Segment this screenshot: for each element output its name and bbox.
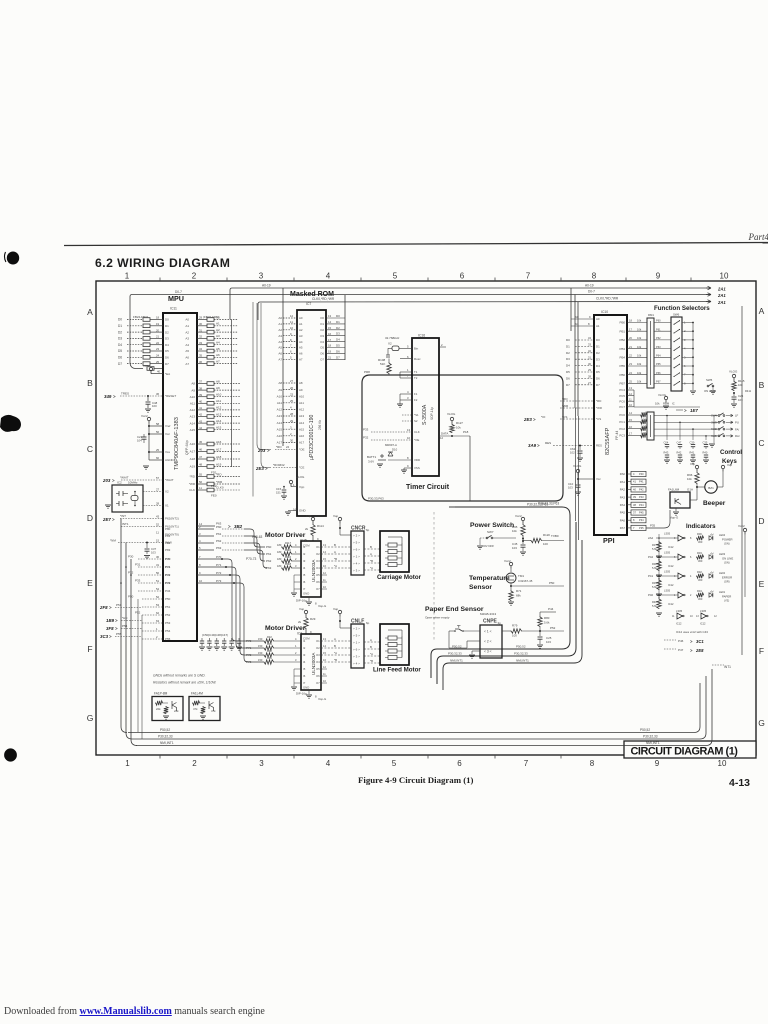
svg-text:25: 25 (156, 448, 160, 452)
svg-text:SW7: SW7 (487, 530, 494, 534)
svg-text:R41: R41 (690, 451, 695, 455)
svg-text:203: 203 (102, 478, 111, 483)
svg-text:51: 51 (156, 579, 160, 583)
svg-text:FE0: FE0 (211, 494, 217, 498)
svg-text:10: 10 (718, 759, 727, 768)
svg-text:P32: P32 (363, 436, 369, 440)
svg-text:P42: P42 (648, 555, 654, 559)
svg-text:100: 100 (152, 404, 157, 408)
svg-text:12: 12 (440, 436, 444, 440)
svg-text:2A2: 2A2 (648, 536, 654, 540)
svg-text:SW5: SW5 (706, 378, 713, 382)
svg-text:*ROM32: *ROM32 (273, 463, 285, 467)
resistor network RM2 box (647, 412, 654, 440)
svg-text:C: C (758, 438, 764, 448)
svg-text:P63: P63 (656, 345, 661, 349)
svg-text:D7: D7 (566, 383, 570, 387)
svg-text:Figure 4-9 Circuit Diagram (1): Figure 4-9 Circuit Diagram (1) (358, 775, 474, 785)
svg-text:D3: D3 (118, 337, 122, 341)
svg-text:Vref: Vref (165, 424, 171, 428)
svg-text:P30,32,33: P30,32,33 (448, 652, 462, 656)
svg-text:PB2: PB2 (620, 338, 626, 342)
svg-text:BZ1: BZ1 (708, 486, 714, 490)
svg-text:43: 43 (156, 515, 160, 519)
svg-text:Resistors without remark are ±: Resistors without remark are ±5%, 1/10W. (153, 681, 216, 685)
svg-text:15: 15 (328, 326, 332, 330)
svg-text:A13: A13 (216, 412, 222, 416)
svg-text:PC0: PC0 (619, 413, 625, 417)
svg-text:3A9: 3A9 (528, 443, 537, 448)
svg-text:17: 17 (328, 338, 332, 342)
svg-text:LS05: LS05 (664, 551, 671, 555)
control keys switches SW1-SW4 (718, 415, 720, 417)
svg-text:A11: A11 (216, 399, 221, 403)
svg-text:C04: C04 (664, 441, 669, 445)
svg-text:54: 54 (156, 587, 160, 591)
svg-text:P35: P35 (639, 526, 644, 530)
svg-text:A6: A6 (216, 353, 220, 357)
svg-text:47: 47 (199, 455, 203, 459)
grid ticks bottom (159, 755, 161, 759)
svg-text:29: 29 (199, 316, 203, 320)
svg-text:10k: 10k (637, 362, 642, 366)
svg-text:< 2 <: < 2 < (484, 639, 492, 643)
svg-text:>: > (109, 605, 112, 610)
svg-text:D5: D5 (118, 349, 122, 353)
svg-text:D0: D0 (118, 318, 122, 322)
svg-text:A15: A15 (299, 427, 305, 431)
MPU IC11 chip body TMP90C840AF-1383 (163, 313, 197, 641)
scan blob artifact top-left (7, 252, 19, 265)
svg-text:23: 23 (156, 347, 160, 351)
svg-text:43: 43 (199, 419, 203, 423)
svg-text:NMI,INT1: NMI,INT1 (160, 741, 174, 745)
svg-text:D4: D4 (336, 338, 340, 342)
svg-text:Paper End Sensor: Paper End Sensor (425, 606, 484, 613)
svg-text:256 Kb: 256 Kb (318, 420, 322, 430)
svg-text:Vop-G: Vop-G (318, 697, 327, 701)
svg-text:5.6k: 5.6k (544, 621, 550, 625)
beeper driver ground (675, 508, 677, 511)
svg-text:R02: R02 (697, 570, 702, 574)
svg-text:2A1: 2A1 (717, 293, 726, 298)
svg-text:CIRCUIT DIAGRAM (1): CIRCUIT DIAGRAM (1) (630, 746, 738, 758)
svg-text:P62(INT2): P62(INT2) (165, 517, 179, 521)
svg-text:10k: 10k (637, 380, 642, 384)
address bus A0-19 wire (230, 288, 711, 320)
Masked ROM IC7 chip body uPD23C2001C-190 (297, 310, 326, 516)
svg-text:A4: A4 (278, 340, 282, 344)
svg-text:39: 39 (199, 393, 203, 397)
svg-text:O1: O1 (316, 639, 320, 643)
driver unused inputs grounded line feed (294, 668, 301, 670)
svg-text:PA1: PA1 (620, 480, 626, 484)
svg-text:VLOG: VLOG (296, 475, 305, 479)
svg-text:*CS: *CS (562, 415, 567, 419)
svg-text:Vop-G: Vop-G (670, 516, 679, 520)
driver supply Vop with resistor R29 2k (304, 610, 307, 613)
svg-text:A3: A3 (299, 334, 303, 338)
svg-text:A2: A2 (299, 328, 303, 332)
svg-text:9: 9 (655, 759, 660, 768)
svg-text:Function Selectors: Function Selectors (654, 305, 710, 312)
svg-text:9: 9 (656, 272, 661, 281)
svg-text:16: 16 (293, 508, 297, 512)
wire bundle loop around timer circuit (362, 375, 563, 501)
svg-text:3: 3 (259, 759, 264, 768)
wires PC4-PC7 loop to SW5 (633, 390, 635, 407)
svg-text:A5: A5 (278, 346, 282, 350)
svg-text:103: 103 (512, 546, 517, 550)
svg-text:D10: D10 (392, 448, 398, 452)
svg-text:IC12: IC12 (668, 583, 674, 587)
svg-text:VLOG: VLOG (729, 370, 738, 374)
svg-text:*A: *A (334, 564, 337, 568)
svg-text:*HC: *HC (122, 616, 128, 620)
svg-text:12: 12 (290, 314, 294, 318)
svg-text:10MHz: 10MHz (128, 481, 138, 485)
svg-text:LE03: LE03 (719, 552, 726, 556)
svg-text:P30,32,33,P63: P30,32,33,P63 (538, 502, 559, 506)
svg-text:P55: P55 (165, 637, 171, 641)
svg-text:Vpp: Vpp (299, 485, 305, 489)
svg-text:D: D (87, 513, 93, 523)
svg-text:52: 52 (156, 523, 160, 527)
svg-text:*NM: *NM (110, 539, 116, 543)
svg-text:36: 36 (156, 392, 160, 396)
svg-text:P53: P53 (165, 621, 171, 625)
line feed motor driver IC2 ULN2003A chip body (301, 634, 321, 690)
svg-text:> 1 >: > 1 > (353, 640, 360, 644)
svg-text:10k: 10k (637, 371, 642, 375)
svg-text:19: 19 (328, 350, 332, 354)
svg-text:*A: *A (370, 566, 373, 570)
svg-text:D1: D1 (596, 345, 600, 349)
svg-text:A13: A13 (277, 414, 283, 418)
svg-text:PA5: PA5 (620, 511, 626, 515)
svg-text:31: 31 (199, 328, 203, 332)
wires crystal to MPU X2 X1 (143, 491, 163, 493)
svg-text:50: 50 (156, 571, 160, 575)
svg-text:Timer Circuit: Timer Circuit (406, 484, 450, 491)
svg-text:O5: O5 (316, 573, 320, 577)
svg-text:26: 26 (290, 386, 294, 390)
svg-text:> 3 >: > 3 > (353, 654, 360, 658)
svg-text:A: A (334, 550, 336, 554)
wire DATA down to bundle (469, 436, 471, 501)
svg-text:A16: A16 (277, 434, 283, 438)
svg-text:P30: P30 (128, 555, 134, 559)
svg-text:>: > (112, 517, 115, 522)
svg-text:A9: A9 (299, 388, 303, 392)
svg-text:10k: 10k (641, 431, 646, 435)
svg-text:82C55AFP: 82C55AFP (605, 427, 611, 455)
svg-text:*A: *A (334, 651, 337, 655)
svg-text:P50,52: P50,52 (160, 728, 170, 732)
svg-text:X2: X2 (165, 490, 169, 494)
svg-text:2: 2 (192, 759, 197, 768)
svg-text:>: > (267, 448, 270, 453)
svg-text:36: 36 (199, 360, 203, 364)
svg-text:P50: P50 (128, 595, 134, 599)
svg-text:*WAIT: *WAIT (165, 478, 174, 482)
svg-text:A7: A7 (216, 359, 220, 363)
svg-text:TM1: TM1 (518, 574, 524, 578)
svg-text:D0: D0 (336, 314, 340, 318)
svg-text:A8: A8 (299, 381, 303, 385)
svg-text:D2: D2 (165, 330, 169, 334)
svg-text:5.6k: 5.6k (652, 547, 658, 551)
svg-text:A15: A15 (277, 427, 283, 431)
top rule line (64, 243, 768, 246)
resistor R71 68k to ground (509, 590, 513, 601)
timer pins T1 T2 (400, 371, 412, 373)
svg-text:P71: P71 (216, 563, 222, 567)
svg-text:22k: 22k (156, 707, 161, 711)
svg-text:P73: P73 (216, 579, 222, 583)
svg-text:R43: R43 (664, 451, 669, 455)
svg-text:IC11: IC11 (170, 307, 177, 311)
svg-text:A1: A1 (185, 324, 189, 328)
svg-text:G: G (87, 713, 94, 723)
svg-text:GND: GND (303, 686, 309, 690)
svg-text:A5: A5 (216, 347, 220, 351)
svg-text:P70: P70 (246, 639, 252, 643)
indicator vertical feed line (658, 534, 660, 597)
svg-text:P52: P52 (165, 613, 171, 617)
svg-text:G: G (758, 718, 765, 728)
bottom wire bus P50-52 (128, 683, 700, 733)
svg-text:D7: D7 (336, 355, 340, 359)
svg-text:IC12: IC12 (668, 545, 674, 549)
svg-text:IC10: IC10 (601, 310, 608, 314)
svg-text:103: 103 (738, 398, 743, 402)
svg-text:*RD: *RD (596, 399, 601, 403)
wire WR riser to control bus and ROM CE (261, 303, 271, 468)
svg-text:GND: GND (303, 592, 309, 596)
svg-text:A0: A0 (185, 318, 189, 322)
svg-text:E: E (87, 578, 93, 588)
svg-text:Rosc: Rosc (414, 357, 421, 361)
svg-text:D0-7: D0-7 (588, 290, 595, 294)
svg-text:D7: D7 (165, 362, 169, 366)
svg-text:AGND: AGND (165, 458, 175, 462)
svg-text:*B: *B (370, 659, 373, 663)
svg-text:349: 349 (104, 394, 112, 399)
svg-text:A5: A5 (299, 346, 303, 350)
svg-text:A8: A8 (278, 381, 282, 385)
svg-text:O4: O4 (320, 340, 324, 344)
svg-text:A12: A12 (299, 408, 305, 412)
svg-text:D4: D4 (566, 364, 570, 368)
svg-text:INT1: INT1 (724, 665, 731, 669)
svg-text:4: 4 (326, 759, 331, 768)
svg-text:>: > (537, 443, 540, 448)
wire RD riser to control bus and ROM OE (257, 303, 271, 450)
svg-text:A13: A13 (190, 415, 196, 419)
ROM address pins A0-A7 (283, 317, 297, 319)
svg-text:CNPE: CNPE (483, 619, 498, 625)
svg-text:34: 34 (199, 347, 203, 351)
svg-text:A1: A1 (596, 324, 600, 328)
svg-text:20: 20 (156, 328, 160, 332)
wires connector to line feed motor (364, 641, 380, 643)
svg-text:Vop: Vop (333, 607, 339, 611)
svg-text:A15: A15 (216, 426, 222, 430)
svg-text:P81: P81 (165, 534, 171, 538)
svg-text:1B9: 1B9 (106, 618, 115, 623)
svg-text:O7: O7 (320, 358, 324, 362)
svg-text:P60: P60 (656, 319, 661, 323)
svg-text:A11: A11 (277, 401, 282, 405)
svg-text:CLK0,*RD,*WR: CLK0,*RD,*WR (596, 297, 619, 301)
svg-text:O1: O1 (320, 322, 324, 326)
svg-text:B: B (334, 644, 336, 648)
svg-text:IC7: IC7 (306, 302, 311, 306)
svg-text:O3: O3 (316, 559, 320, 563)
svg-text:6p: 6p (366, 528, 370, 532)
svg-text:P70-73: P70-73 (246, 557, 257, 561)
svg-text:FA1P-8M: FA1P-8M (154, 692, 168, 696)
svg-text:10k: 10k (641, 424, 646, 428)
svg-text:T1: T1 (414, 370, 418, 374)
svg-text:NMI,INT1: NMI,INT1 (516, 659, 529, 663)
svg-text:11: 11 (156, 531, 159, 535)
svg-text:10k: 10k (738, 383, 743, 387)
svg-text:O7: O7 (316, 681, 320, 685)
svg-text:LS05: LS05 (664, 589, 671, 593)
svg-text:A6: A6 (185, 356, 189, 360)
svg-text:P71: P71 (246, 646, 252, 650)
svg-text:FA/: FA/ (735, 427, 739, 431)
svg-text:8: 8 (590, 759, 595, 768)
svg-text:TRES: TRES (121, 392, 129, 396)
svg-text:(OR): (OR) (724, 580, 730, 584)
svg-text:2F8: 2F8 (99, 605, 108, 610)
svg-text:21: 21 (328, 356, 332, 360)
svg-text:A16: A16 (299, 434, 305, 438)
bus riser to PPI control pins (577, 302, 579, 417)
svg-text:P30,33,P63: P30,33,P63 (368, 497, 384, 501)
svg-text:15: 15 (156, 539, 160, 543)
svg-text:P50: P50 (549, 581, 555, 585)
svg-text:D2: D2 (336, 326, 340, 330)
ground below C48 (145, 408, 151, 410)
ROM address pins A8-A17 (283, 382, 297, 384)
Line Feed Motor body (380, 624, 409, 665)
svg-text:GND: GND (299, 509, 307, 513)
PPI RD WR CS pins (560, 400, 594, 402)
svg-text:5.6k: 5.6k (652, 566, 658, 570)
svg-text:Downloaded from www.Manualslib: Downloaded from www.Manualslib.com manua… (4, 1006, 265, 1017)
svg-text:IC12: IC12 (676, 622, 682, 626)
svg-text:*CE: *CE (299, 466, 304, 470)
svg-text:O5: O5 (316, 667, 320, 671)
svg-text:D7: D7 (118, 362, 122, 366)
svg-text:P60: P60 (266, 545, 272, 549)
svg-text:C30: C30 (690, 441, 695, 445)
svg-text:D6: D6 (165, 356, 169, 360)
svg-text:< 3 <: < 3 < (484, 649, 492, 653)
svg-text:*IO: *IO (541, 415, 546, 419)
wires P50 P52 to left vertical bundle (137, 599, 139, 732)
svg-text:30: 30 (199, 322, 203, 326)
svg-text:BATT1: BATT1 (367, 455, 376, 459)
svg-text:5.6k: 5.6k (652, 585, 658, 589)
svg-text:Carriage Motor: Carriage Motor (377, 574, 422, 581)
svg-text:D1: D1 (336, 320, 340, 324)
svg-text:18: 18 (156, 316, 160, 320)
svg-text:>: > (115, 618, 118, 623)
svg-text:P62: P62 (656, 336, 661, 340)
svg-text:10k: 10k (637, 354, 642, 358)
svg-text:22: 22 (156, 341, 160, 345)
svg-text:A17: A17 (299, 441, 305, 445)
svg-text:PC3: PC3 (619, 434, 625, 438)
bottom wire bus P30 32 33 (132, 676, 706, 739)
svg-text:P50: P50 (165, 597, 171, 601)
svg-text:O5: O5 (320, 346, 324, 350)
svg-text:D5: D5 (336, 344, 340, 348)
svg-text:P45: P45 (639, 511, 644, 515)
svg-text:PB3: PB3 (620, 347, 626, 351)
svg-text:45: 45 (199, 440, 203, 444)
svg-text:R40: R40 (652, 600, 657, 604)
svg-text:A8: A8 (191, 382, 195, 386)
svg-text:*OE: *OE (414, 438, 419, 442)
svg-text:28: 28 (290, 412, 294, 416)
svg-text:P44: P44 (639, 503, 644, 507)
svg-text:P31: P31 (135, 563, 141, 567)
svg-text:PB5: PB5 (620, 364, 626, 368)
svg-text:A10: A10 (277, 394, 283, 398)
svg-text:< 1 <: < 1 < (484, 629, 492, 633)
svg-text:C47: C47 (677, 441, 682, 445)
svg-text:PB0: PB0 (620, 321, 626, 325)
capacitor C45 103 (522, 541, 524, 544)
svg-text:DATA: DATA (441, 432, 448, 436)
svg-text:51K: 51K (380, 362, 385, 366)
svg-text:>: > (115, 626, 118, 631)
svg-text:D2: D2 (596, 351, 600, 355)
svg-text:1: 1 (125, 272, 130, 281)
svg-text:203: 203 (257, 448, 266, 453)
svg-text:O7: O7 (316, 587, 320, 591)
svg-text:300: 300 (698, 578, 703, 582)
svg-text:B: B (370, 545, 372, 549)
svg-text:PA6: PA6 (620, 518, 626, 522)
svg-text:180: 180 (277, 550, 282, 554)
thermistor output wire P50 (510, 585, 512, 587)
svg-text:55: 55 (199, 473, 203, 477)
svg-text:47k: 47k (193, 707, 198, 711)
svg-text:5.6k: 5.6k (652, 604, 658, 608)
svg-text:180: 180 (277, 557, 282, 561)
svg-text:Indicators: Indicators (686, 523, 716, 530)
svg-text:P41: P41 (639, 480, 644, 484)
svg-text:C32167-45: C32167-45 (518, 579, 533, 583)
svg-text:IC: IC (672, 402, 675, 406)
svg-text:R31: R31 (267, 656, 272, 660)
svg-text:Vcc2: Vcc2 (143, 364, 150, 368)
svg-text:µPD23C2001C-190: µPD23C2001C-190 (309, 415, 315, 460)
svg-text:VLOG: VLOG (658, 393, 667, 397)
svg-text:44: 44 (199, 426, 203, 430)
svg-text:35: 35 (199, 354, 203, 358)
svg-text:POWER: POWER (722, 538, 733, 542)
svg-text:O4: O4 (316, 660, 320, 664)
svg-text:D0: D0 (165, 318, 169, 322)
